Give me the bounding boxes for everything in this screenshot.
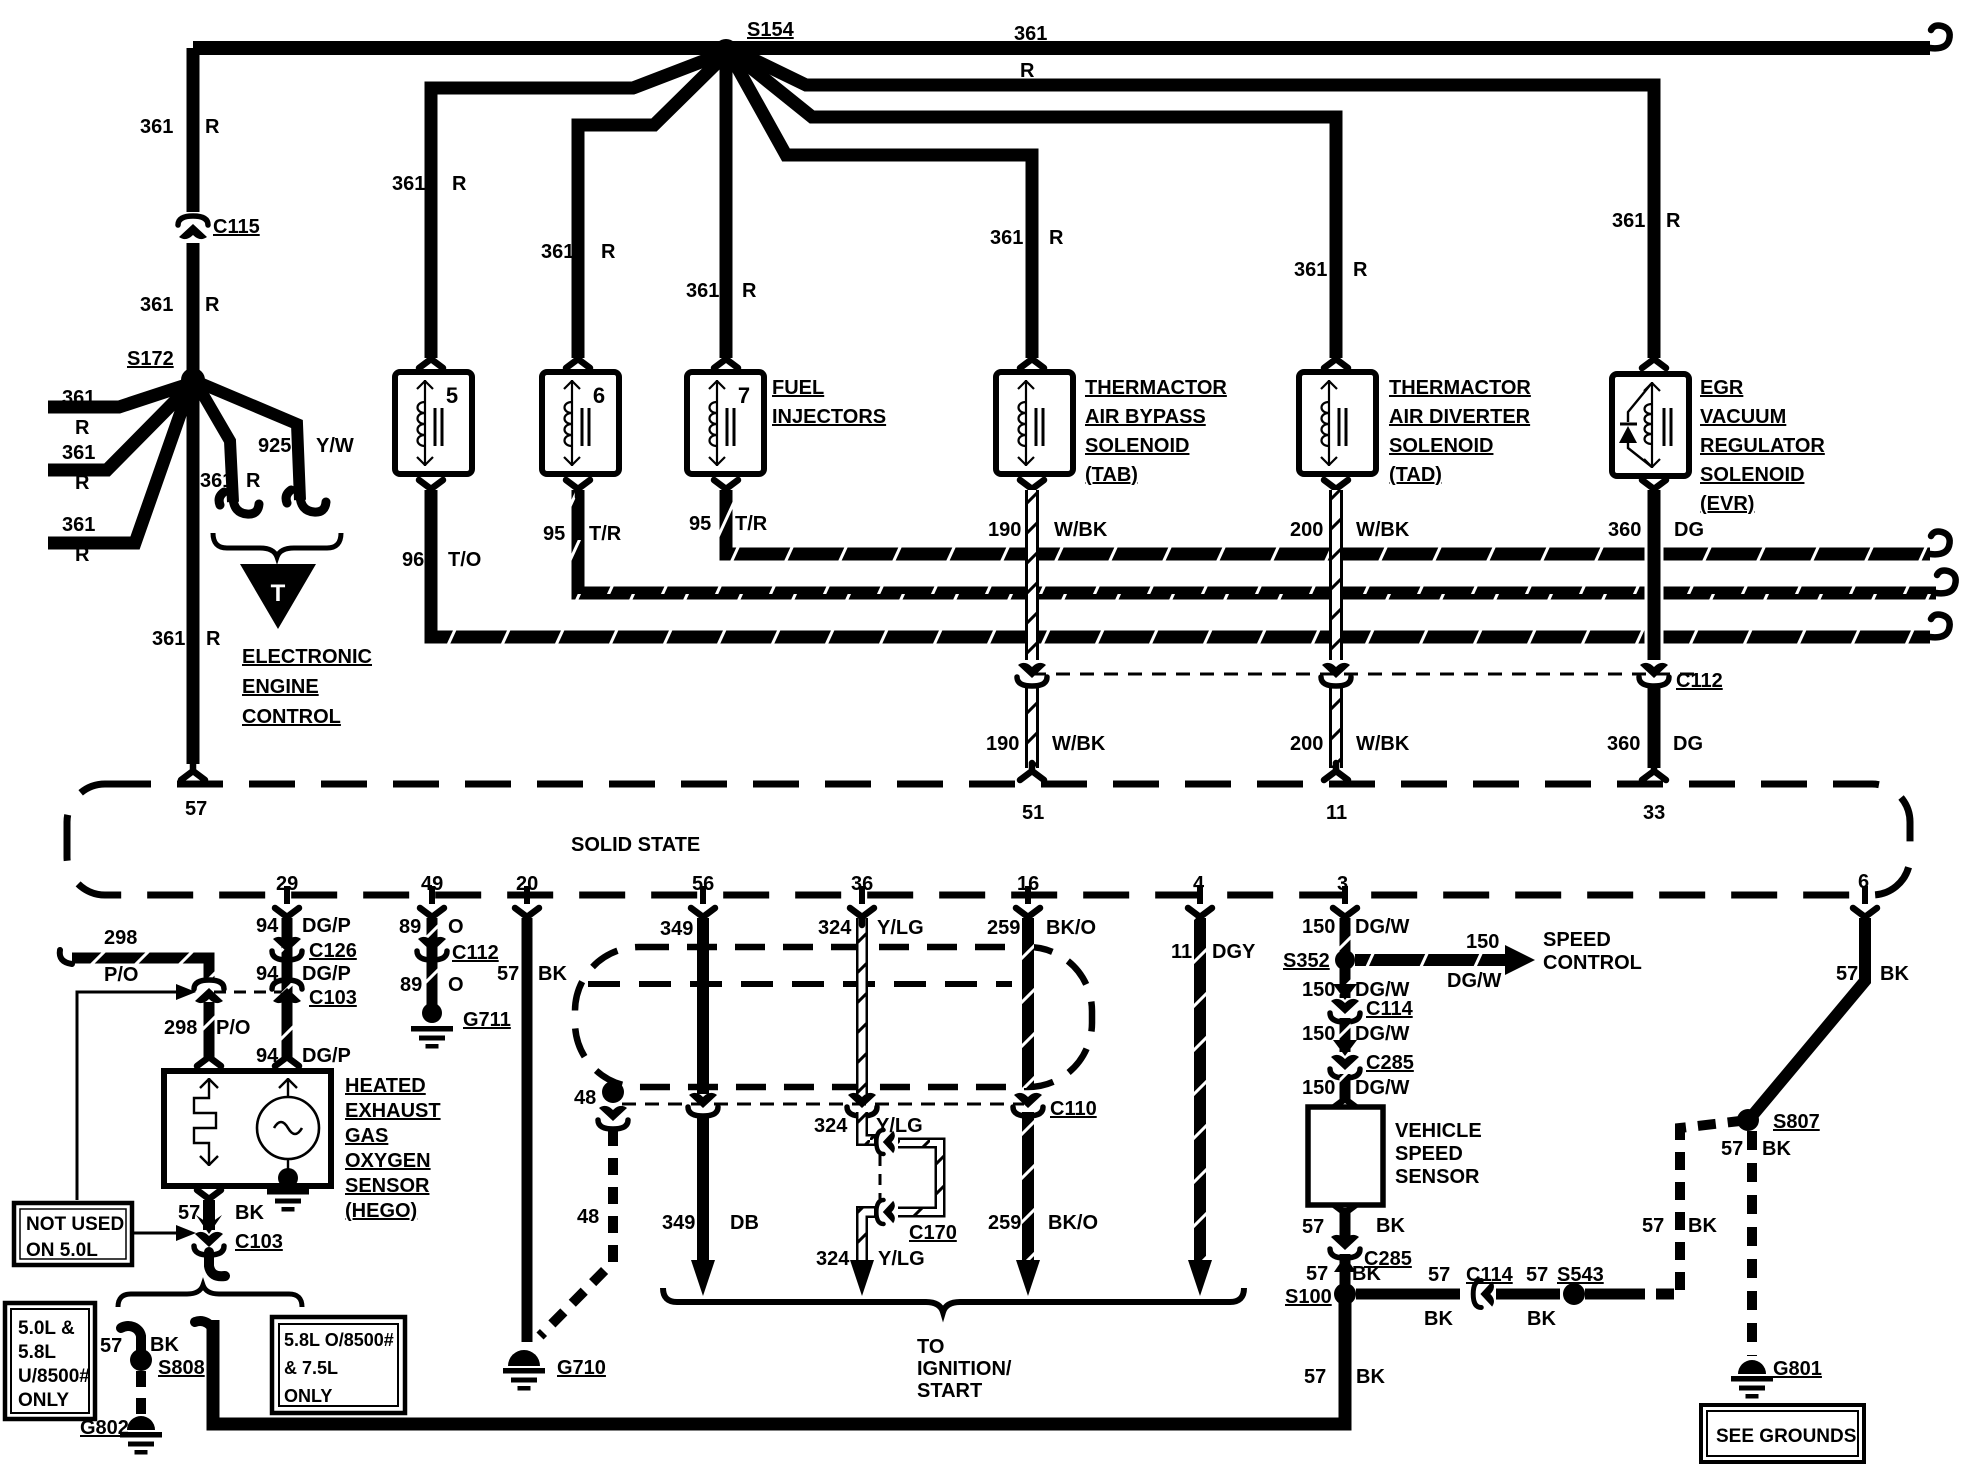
svg-text:SPEED: SPEED (1395, 1143, 1463, 1165)
svg-text:BK: BK (1880, 963, 1909, 985)
svg-text:150: 150 (1302, 1077, 1335, 1099)
C170 connector upper (facing left) (876, 1130, 894, 1154)
svg-text:T/R: T/R (735, 513, 768, 535)
wire below VSS (1340, 1208, 1351, 1240)
wire 324 jog into C170 (862, 1112, 878, 1140)
wire 360 DG lower (EVR) (1648, 688, 1661, 768)
thin dashed connector line C112 row (1032, 673, 1700, 676)
svg-text:C110: C110 (1050, 1098, 1097, 1120)
svg-text:R: R (452, 173, 467, 195)
S172 left stub wire 2 (48, 390, 186, 470)
svg-text:49: 49 (421, 873, 443, 895)
svg-text:259: 259 (988, 1212, 1021, 1234)
svg-text:57: 57 (497, 963, 519, 985)
svg-text:ONLY: ONLY (284, 1386, 332, 1406)
splice dot S154 (714, 39, 738, 63)
wire S154 branch to injector 5 (431, 55, 719, 358)
svg-text:48: 48 (574, 1087, 596, 1109)
svg-text:O: O (448, 916, 464, 938)
svg-text:C103: C103 (235, 1231, 283, 1253)
svg-text:C115: C115 (213, 216, 260, 238)
wire pin 6 to S807 (1752, 918, 1865, 1116)
svg-text:190: 190 (988, 519, 1021, 541)
svg-text:259: 259 (987, 917, 1020, 939)
svg-text:BK: BK (150, 1334, 179, 1356)
svg-text:361: 361 (62, 514, 95, 536)
svg-text:ELECTRONIC: ELECTRONIC (242, 646, 372, 668)
svg-text:Y/W: Y/W (316, 435, 354, 457)
fuel injector 6 box (542, 372, 619, 474)
wire S172 down to EEC pin 57 (187, 380, 200, 764)
svg-text:(HEGO): (HEGO) (345, 1200, 417, 1222)
svg-text:SOLID STATE: SOLID STATE (571, 834, 700, 856)
svg-text:6: 6 (593, 383, 605, 408)
svg-text:BK: BK (1527, 1308, 1556, 1330)
svg-text:349: 349 (660, 918, 693, 940)
connector C110 (1013, 1093, 1043, 1116)
svg-text:BK: BK (1376, 1215, 1405, 1237)
svg-text:DG/P: DG/P (302, 915, 351, 937)
svg-text:DG/P: DG/P (302, 1045, 351, 1067)
svg-text:R: R (601, 241, 616, 263)
connector C112 at EVR (1639, 663, 1669, 686)
svg-text:SOLENOID: SOLENOID (1085, 435, 1189, 457)
svg-text:C285: C285 (1366, 1052, 1414, 1074)
svg-text:51: 51 (1022, 802, 1044, 824)
wire 298 P/O from pigtail to HEGO (72, 958, 209, 982)
svg-text:TO: TO (917, 1336, 944, 1358)
wire 361 R top bus from S154 right to pigtail (726, 41, 1930, 55)
svg-text:7: 7 (738, 383, 750, 408)
svg-text:VACUUM: VACUUM (1700, 406, 1786, 428)
ground G802 (127, 1416, 155, 1430)
svg-text:361: 361 (990, 227, 1023, 249)
svg-text:57: 57 (1306, 1263, 1328, 1285)
pin 36 column striped wire 324 Y/LG (856, 918, 868, 1094)
5.8L O/8500 7.5L ONLY box (272, 1317, 405, 1413)
S808 branch hook (121, 1326, 141, 1352)
right branch hook to bottom bus (195, 1321, 213, 1344)
ground G711 (422, 1003, 442, 1023)
svg-text:57: 57 (1302, 1216, 1324, 1238)
ground G801 (1738, 1360, 1766, 1374)
connector C114 horizontal (1473, 1281, 1494, 1308)
svg-text:360: 360 (1608, 519, 1641, 541)
svg-text:57: 57 (100, 1335, 122, 1357)
EVR diode branch (1628, 384, 1652, 467)
thermactor air diverter solenoid TAD box (1299, 372, 1376, 474)
svg-text:349: 349 (662, 1212, 695, 1234)
svg-text:BK: BK (1424, 1308, 1453, 1330)
svg-text:T/R: T/R (589, 523, 622, 545)
svg-text:R: R (1049, 227, 1064, 249)
svg-text:HEATED: HEATED (345, 1075, 426, 1097)
heated exhaust gas oxygen sensor HEGO box (164, 1071, 331, 1186)
svg-text:T/O: T/O (448, 549, 481, 571)
svg-text:BK: BK (1352, 1263, 1381, 1285)
wire S100 to right (1356, 1289, 1460, 1300)
svg-text:56: 56 (692, 873, 714, 895)
connector pair below node 48 (598, 1106, 628, 1129)
svg-text:R: R (205, 294, 220, 316)
C170 white loop wire (898, 1143, 940, 1212)
svg-text:94: 94 (256, 1045, 279, 1067)
svg-text:95: 95 (543, 523, 565, 545)
connector C285 lower (1330, 1235, 1360, 1258)
svg-text:BK: BK (1762, 1138, 1791, 1160)
crow feet above component boxes (419, 351, 443, 368)
svg-text:361: 361 (62, 387, 95, 409)
svg-text:DGY: DGY (1212, 941, 1256, 963)
connector C103 lower (194, 1232, 224, 1255)
thin arrow line from NOT USED box up to 298 connector (77, 992, 176, 1200)
svg-text:C170: C170 (909, 1222, 957, 1244)
svg-text:5.8L O/8500#: 5.8L O/8500# (284, 1330, 394, 1350)
thin arrow line from NOT USED box to C103 (133, 1232, 176, 1235)
connector C112 lower (417, 937, 447, 960)
NOT USED ON 5.0L box (14, 1203, 132, 1265)
thin dashed line node 48 row (622, 1103, 1024, 1106)
svg-text:(TAB): (TAB) (1085, 464, 1138, 486)
big brace TO IGNITION/START (663, 1288, 1244, 1312)
svg-text:150: 150 (1466, 931, 1499, 953)
svg-text:Y/LG: Y/LG (877, 917, 924, 939)
svg-text:4: 4 (1193, 873, 1205, 895)
svg-text:R: R (205, 116, 220, 138)
svg-text:EXHAUST: EXHAUST (345, 1100, 441, 1122)
svg-text:START: START (917, 1380, 982, 1402)
svg-text:P/O: P/O (104, 964, 138, 986)
svg-text:(TAD): (TAD) (1389, 464, 1442, 486)
svg-text:48: 48 (577, 1206, 599, 1228)
svg-text:R: R (1666, 210, 1681, 232)
crow foot into HEGO right (275, 1049, 299, 1066)
svg-text:361: 361 (1014, 23, 1047, 45)
dead-end hook 925 Y/W (286, 490, 326, 512)
svg-text:DG/W: DG/W (1447, 970, 1502, 992)
svg-text:(EVR): (EVR) (1700, 493, 1754, 515)
pin ticks on EEC bottom line (287, 886, 1865, 904)
svg-text:190: 190 (986, 733, 1019, 755)
svg-text:200: 200 (1290, 519, 1323, 541)
svg-text:5.8L: 5.8L (18, 1342, 56, 1363)
pin 56 column wire 349 DB (697, 918, 709, 1094)
svg-text:298: 298 (164, 1017, 197, 1039)
brace over S808 branches (118, 1285, 302, 1307)
svg-text:324: 324 (814, 1115, 848, 1137)
svg-text:361: 361 (541, 241, 574, 263)
svg-text:C114: C114 (1466, 1264, 1514, 1286)
connector pair at C112 row TAD (1321, 663, 1351, 686)
hatched wire 96 T/O from injector 5 (431, 490, 1930, 637)
svg-text:361: 361 (152, 628, 185, 650)
svg-text:SENSOR: SENSOR (1395, 1166, 1480, 1188)
wire 361 R top bus from S154 left to column A (193, 41, 726, 55)
EEC module dashed box SOLID STATE (67, 784, 1910, 895)
svg-text:298: 298 (104, 927, 137, 949)
brace under hooks (213, 533, 341, 557)
connector C115 (178, 216, 208, 239)
wire 150 DG/W speed control arrow (1355, 954, 1505, 966)
striped wire 200 W/BK upper (TAD) (1329, 490, 1343, 660)
S172 left stub wire 1 (48, 385, 186, 407)
svg-text:DG/W: DG/W (1355, 1023, 1410, 1045)
wire 360 DG upper (EVR) (1645, 490, 1664, 660)
svg-text:W/BK: W/BK (1356, 519, 1410, 541)
connector C126 (272, 937, 302, 960)
connector C285 upper (1330, 1055, 1360, 1078)
svg-text:REGULATOR: REGULATOR (1700, 435, 1825, 457)
wire 57 BK below HEGO (203, 1200, 215, 1230)
wire 324 below C170 (862, 1212, 876, 1268)
striped wire 200 W/BK lower (TAD) (1329, 688, 1343, 768)
svg-text:16: 16 (1017, 873, 1039, 895)
svg-text:W/BK: W/BK (1052, 733, 1106, 755)
hatched wire 95 T/R from injector 7 (726, 490, 1930, 554)
svg-text:57: 57 (1304, 1366, 1326, 1388)
svg-text:IGNITION/: IGNITION/ (917, 1358, 1012, 1380)
svg-text:3: 3 (1337, 873, 1348, 895)
EGR vacuum regulator solenoid EVR box (1612, 374, 1689, 476)
svg-text:324: 324 (816, 1248, 850, 1270)
pin 16 column striped wire 259 BK/O (1022, 918, 1034, 1088)
wire column A vertical below C115 to S172 (187, 243, 200, 380)
svg-text:T: T (271, 580, 286, 607)
wire S154 branch to TAD solenoid (735, 55, 1336, 358)
splice S100 (1334, 1283, 1356, 1305)
svg-text:R: R (742, 280, 757, 302)
HEGO heater element (194, 1078, 216, 1166)
crow foot at EEC pin 57 (top) (181, 763, 205, 780)
svg-text:C112: C112 (1676, 670, 1723, 692)
svg-text:R: R (75, 472, 90, 494)
node 48 splice dot (602, 1081, 624, 1103)
svg-text:CONTROL: CONTROL (242, 706, 341, 728)
svg-text:BK: BK (538, 963, 567, 985)
S172 branch to dead-end hook 361 R (198, 386, 233, 502)
svg-text:89: 89 (399, 916, 421, 938)
svg-text:BK: BK (1688, 1215, 1717, 1237)
svg-text:DG: DG (1674, 519, 1704, 541)
svg-text:AIR BYPASS: AIR BYPASS (1085, 406, 1206, 428)
C170 connector lower (facing left) (876, 1200, 894, 1224)
svg-text:29: 29 (276, 873, 298, 895)
svg-text:6: 6 (1858, 871, 1869, 893)
svg-text:OXYGEN: OXYGEN (345, 1150, 431, 1172)
pigtail below C103 (209, 1252, 225, 1276)
svg-text:361: 361 (140, 294, 173, 316)
svg-text:G802: G802 (80, 1417, 129, 1439)
svg-text:DG/W: DG/W (1355, 916, 1410, 938)
pin 49 column wire 89 O (427, 918, 438, 1005)
svg-text:S543: S543 (1557, 1264, 1604, 1286)
svg-text:C114: C114 (1366, 998, 1414, 1020)
triangle T symbol (240, 564, 316, 629)
crow feet at EEC top line pins 51 11 33 (1020, 763, 1044, 780)
splice S352 (1335, 950, 1355, 970)
svg-text:DG/W: DG/W (1355, 1077, 1410, 1099)
splice S543 (1563, 1283, 1585, 1305)
svg-text:BK/O: BK/O (1046, 917, 1096, 939)
svg-text:361: 361 (200, 470, 233, 492)
thin dashed link C170 (879, 1155, 882, 1200)
svg-text:P/O: P/O (216, 1017, 250, 1039)
pin 3 column: 150 DG/W chain (1340, 918, 1351, 952)
wire S154 branch to EVR solenoid (738, 52, 1654, 358)
svg-text:33: 33 (1643, 802, 1665, 824)
5.0L 5.8L U/8500 ONLY box (5, 1303, 95, 1419)
svg-text:W/BK: W/BK (1054, 519, 1108, 541)
svg-text:94: 94 (256, 963, 279, 985)
fuel injector 7 box (687, 372, 764, 474)
svg-text:GAS: GAS (345, 1125, 388, 1147)
svg-text:INJECTORS: INJECTORS (772, 406, 886, 428)
connector C114 (1330, 999, 1360, 1022)
svg-text:THERMACTOR: THERMACTOR (1085, 377, 1227, 399)
svg-text:57: 57 (1526, 1264, 1548, 1286)
striped wire 190 W/BK upper (TAB) (1025, 490, 1039, 660)
wire S154 branch to TAB solenoid (732, 58, 1032, 358)
svg-text:Y/LG: Y/LG (878, 1248, 925, 1270)
svg-text:150: 150 (1302, 979, 1335, 1001)
wire S154 branch to injector 7 (720, 60, 733, 358)
svg-text:O: O (448, 974, 464, 996)
svg-text:361: 361 (62, 442, 95, 464)
svg-text:S172: S172 (127, 348, 174, 370)
svg-text:324: 324 (818, 917, 852, 939)
fuel injector 5 box (395, 372, 472, 474)
thermactor air bypass solenoid TAB box (996, 372, 1073, 474)
connector pair at C112 row TAB (1017, 663, 1047, 686)
svg-text:FUEL: FUEL (772, 377, 824, 399)
striped wire 190 W/BK lower (TAB) (1025, 688, 1039, 768)
splice S807 (1737, 1109, 1759, 1131)
svg-text:C112: C112 (452, 942, 499, 964)
dashed wire below S808 (136, 1371, 146, 1416)
svg-text:G711: G711 (463, 1009, 511, 1031)
svg-text:150: 150 (1302, 1023, 1335, 1045)
svg-text:5: 5 (446, 383, 458, 408)
svg-text:57: 57 (185, 798, 207, 820)
svg-text:11: 11 (1171, 941, 1192, 963)
svg-text:SPEED: SPEED (1543, 929, 1611, 951)
svg-text:THERMACTOR: THERMACTOR (1389, 377, 1531, 399)
svg-text:ENGINE: ENGINE (242, 676, 319, 698)
dashed wire 48 down to G710 (540, 1129, 613, 1336)
pin 20 column wire 57 BK to G710 (522, 918, 533, 1342)
ground G710 (508, 1350, 540, 1366)
svg-text:DG: DG (1673, 733, 1703, 755)
svg-text:57: 57 (1721, 1138, 1743, 1160)
svg-text:SEE GROUNDS: SEE GROUNDS (1716, 1426, 1856, 1447)
dashed wire up from corner to S807 stub (1680, 1121, 1740, 1290)
splice S808 (130, 1349, 152, 1371)
svg-text:57: 57 (1836, 963, 1858, 985)
pin 29 column striped wire 94 DG/P (282, 918, 293, 1060)
splice dot S172 (181, 368, 205, 392)
svg-text:361: 361 (1294, 259, 1327, 281)
S172 branch to dead-end hook 925 Y/W (200, 383, 300, 500)
svg-text:R: R (75, 417, 90, 439)
svg-text:& 7.5L: & 7.5L (284, 1358, 338, 1378)
S172 left stub wire 3 (48, 392, 188, 543)
svg-text:ON 5.0L: ON 5.0L (26, 1240, 98, 1261)
svg-text:S154: S154 (747, 19, 795, 41)
pin 4 column striped wire 11 DGY (1194, 918, 1206, 1266)
connector C103 upper (272, 980, 302, 1003)
svg-text:150: 150 (1302, 916, 1335, 938)
svg-text:ONLY: ONLY (18, 1390, 69, 1411)
svg-text:AIR DIVERTER: AIR DIVERTER (1389, 406, 1531, 428)
hatched wire 95 T/R from injector 6 (578, 490, 1936, 593)
svg-text:S807: S807 (1773, 1111, 1820, 1133)
wire column A vertical above C115 (187, 48, 200, 212)
svg-text:96: 96 (402, 549, 424, 571)
svg-text:20: 20 (516, 873, 538, 895)
svg-text:89: 89 (400, 974, 422, 996)
svg-text:VEHICLE: VEHICLE (1395, 1120, 1482, 1142)
svg-text:SENSOR: SENSOR (345, 1175, 430, 1197)
svg-text:361: 361 (1612, 210, 1645, 232)
dashed wire S807 down to G801 (1747, 1131, 1757, 1356)
svg-text:5.0L &: 5.0L & (18, 1318, 75, 1339)
svg-text:361: 361 (686, 280, 719, 302)
svg-text:BK: BK (1356, 1366, 1385, 1388)
svg-text:R: R (246, 470, 261, 492)
wire right branch down and bottom bus 57 BK (213, 1294, 1345, 1424)
svg-text:BK: BK (235, 1202, 264, 1224)
wire below S352 (1340, 968, 1351, 998)
svg-text:G801: G801 (1773, 1358, 1822, 1380)
svg-text:R: R (1020, 60, 1035, 82)
svg-text:S352: S352 (1283, 950, 1330, 972)
svg-text:361: 361 (140, 116, 173, 138)
svg-text:G710: G710 (557, 1357, 606, 1379)
svg-text:DG/P: DG/P (302, 963, 351, 985)
connector at 298 wire (194, 980, 224, 1003)
dead-end hook 361 R (219, 492, 259, 514)
svg-text:Y/LG: Y/LG (876, 1115, 923, 1137)
crow feet below injector boxes (419, 480, 443, 497)
svg-text:57: 57 (178, 1202, 200, 1224)
svg-text:SOLENOID: SOLENOID (1389, 435, 1493, 457)
inner dashed harness line (588, 981, 1012, 987)
svg-text:U/8500#: U/8500# (18, 1366, 90, 1387)
svg-text:CONTROL: CONTROL (1543, 952, 1642, 974)
vehicle speed sensor box (1308, 1107, 1383, 1205)
svg-text:SOLENOID: SOLENOID (1700, 464, 1804, 486)
svg-text:R: R (206, 628, 221, 650)
svg-text:95: 95 (689, 513, 711, 535)
svg-text:R: R (75, 544, 90, 566)
HEGO sensor cell (257, 1097, 319, 1159)
SEE GROUNDS box (1701, 1405, 1864, 1462)
svg-text:NOT USED: NOT USED (26, 1214, 124, 1235)
svg-text:36: 36 (851, 873, 873, 895)
wire S154 branch to injector 6 (578, 58, 722, 358)
svg-text:361: 361 (392, 173, 425, 195)
svg-text:C126: C126 (309, 940, 357, 962)
pigtail hook top right (1930, 26, 1950, 49)
svg-text:925: 925 (258, 435, 291, 457)
svg-text:EGR: EGR (1700, 377, 1744, 399)
svg-text:DB: DB (730, 1212, 759, 1234)
svg-text:S808: S808 (158, 1357, 205, 1379)
svg-text:360: 360 (1607, 733, 1640, 755)
svg-text:W/BK: W/BK (1356, 733, 1410, 755)
dashed oval harness loop (575, 947, 1092, 1087)
svg-text:C103: C103 (309, 987, 357, 1009)
